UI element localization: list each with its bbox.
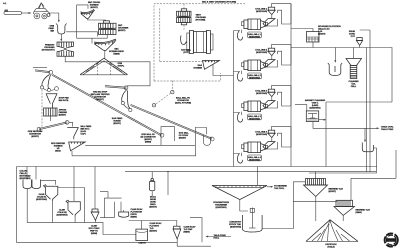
svg-text:CYCLONE 1(EXISTING): CYCLONE 1(EXISTING) [255,8,268,14]
ball mill unit 3 with cyclone [234,86,292,122]
wire: scav tails out [190,218,202,243]
haul truck [33,3,50,19]
wire: bin to primary crusher [60,34,62,42]
ball mill unit 1 with cyclone [234,4,292,40]
future crushing battery limit (dash-dot box) [154,4,245,81]
wire: column cell feed [353,48,355,59]
flotation feed header [125,171,376,173]
wire: mid transfer line [72,155,196,157]
wire: stock tank to regrind risers [262,182,337,229]
transfer staircase to sag chute [195,128,206,146]
wire: truck to ore feed bin [49,13,60,23]
wire: conc tank feed [334,48,336,62]
ore stockpile tent [80,58,127,75]
wire: junction drop [167,172,169,195]
wire: thickener overflow arrow [267,186,273,188]
regrind mill 1 [304,179,328,222]
svg-text:THICK OVFLTAILS POND: THICK OVFLTAILS POND [381,125,394,131]
svg-text:RGHRCONCCYC: RGHRCONCCYC [349,30,356,38]
wire: rougher tails header [291,42,392,102]
wire: tert crusher to sag mill (dashed) [183,25,185,30]
rougher concentrate cyclone [356,38,362,48]
wire: col tails line [326,102,392,167]
ball mill feed conveyor (future, dashed) [152,90,174,107]
wire: claw to reclaim feeder (dashed) [41,90,43,127]
wire: future feed (dashed) [172,81,174,92]
stockpile feed bin [46,94,57,108]
wire: screen loop left riser [77,5,88,38]
svg-text:CYCLONE 3(EXISTING): CYCLONE 3(EXISTING) [255,90,268,96]
wire: feed to stacker head [33,67,47,69]
flotation area boundary box [17,167,378,247]
mine source label box [4,10,22,15]
tertiary crusher (future) [177,4,192,25]
company logo stamp [385,233,398,246]
wire: cells underflow collector [27,189,136,235]
wire: sag screen to ball mill feed bus [213,65,234,76]
concentrate stock tank [243,208,263,233]
wire: crusher discharge to stockpile feed [65,56,150,86]
conditioner tank [136,221,148,241]
reclaim chute claw (left) [40,75,58,92]
wire: sec crusher recycle to lower screen [77,35,108,44]
secondary crusher (cone) [99,21,117,35]
wire: regrind 1 feed [315,172,317,179]
svg-text:STKP FEDBIN GATE: STKP FEDBIN GATE [59,97,70,103]
wire: screen oversize to secondary crusher [88,19,106,21]
cleaner cell 2 [66,200,80,217]
wire: reclaim conveyor head to mill feed bin [69,122,73,126]
wire: cleaner cell 2 feed [58,167,85,223]
svg-text:CNDTR: CNDTR [138,242,146,245]
rougher flotation cell bank [307,32,320,43]
wire: cell bank feeds [27,167,36,180]
svg-text:CYCLONE 2(EXISTING): CYCLONE 2(EXISTING) [255,49,268,55]
wire: bank overflow to cleaner cell 1 [41,180,56,184]
tails transfer hook [362,143,373,152]
svg-text:CONCNTRTSTOCK TNK(EXISTING): CONCNTRTSTOCK TNK(EXISTING) [229,221,242,229]
magnetic separator unit [306,111,318,122]
cyclone overflow bus [290,4,292,167]
rod mill feed chute corner [161,127,175,145]
wire: magnet tails to pond [313,122,379,130]
wire: magnet conc to tails riser [319,119,327,121]
stacker conveyor head (left) [35,70,53,74]
cleaner conc pump tank [91,209,99,222]
wire: screen oversize right [85,145,195,156]
tertiary screen (banana deck) [94,39,116,50]
sag feed chute hook [204,135,211,146]
fine ore screen [69,142,86,151]
wire: scav tails drop [364,128,366,140]
svg-text:CYCLONE 4(EXISTING): CYCLONE 4(EXISTING) [255,131,268,137]
svg-text:SEC & TERT CRUSHING (FUTURE): SEC & TERT CRUSHING (FUTURE) [202,1,236,4]
cleaner scav tails tank [173,226,181,242]
wire: screen undersize down [71,151,73,156]
svg-text:Bohn: Bohn [388,240,394,242]
apron feeder [44,108,58,121]
mill feed bin funnel [67,128,78,140]
label tails pond haul [206,236,232,238]
ore feed bin [56,24,67,35]
wire: scav header [129,221,177,227]
wire: regrind 2 feed [351,150,396,200]
wire: cyclone feed risers [360,30,370,172]
reclaim conveyor incline [37,121,69,131]
ball mill unit 4 with cyclone [234,127,292,163]
sag mill (future) [181,31,213,54]
wire: thickener underflow [240,200,248,211]
concentrate thickener [212,186,267,200]
wire: overflow to distributor [291,29,313,32]
ball mill unit 2 with cyclone [234,45,292,81]
overland conveyor no2 (long incline) [130,104,214,141]
ball mill feed bus [233,31,235,167]
svg-text:BULKRGHRCONCSMPL(EXIST): BULKRGHRCONCSMPL(EXIST) [149,196,157,209]
wire: screen undersize to stockpile [104,51,106,59]
primary crusher (gyratory) [57,42,74,56]
wire: mine to truck arrow [22,12,32,14]
secondary screen (banana deck) [80,10,94,19]
wire: bin bypass to screen 2 [66,32,97,37]
cleaner column cell [346,59,362,79]
sampler flask [150,172,155,196]
regrind mill 2 [334,200,355,221]
cleaner cell 1 [44,185,58,202]
overland conveyor no1 (long incline) [52,74,164,137]
cleaner scav transfer lines [100,192,122,218]
wire: conc pump tank feed [94,167,96,210]
svg-text:BALL MILL FDCONVEYOR(MATL FUTU: BALL MILL FDCONVEYOR(MATL FUTURE) [175,97,191,105]
distributor pot [119,202,129,217]
sag screen [203,61,220,70]
tailings stockpile mountain [306,220,358,242]
wire: hook to regrind header [309,148,377,173]
tripper conveyor head (stockpile) [105,86,128,90]
concentrate surge tank [328,63,342,76]
column cell bank [23,180,41,189]
wire: magnet feed [295,105,307,111]
reclaim chute claw (stockpile) [121,90,132,112]
wire: thickener feed [257,167,259,186]
